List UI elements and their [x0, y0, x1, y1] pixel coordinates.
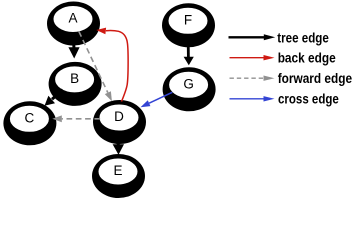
back edge D->A (red) [96, 28, 128, 102]
tree edge B->C [45, 90, 63, 106]
forward edge A->D (gray dashed) [79, 32, 112, 102]
node E [92, 154, 145, 198]
forward edge D->C (gray dashed) [52, 115, 100, 122]
svg-text:cross edge: cross edge [278, 90, 339, 106]
node A [47, 2, 100, 46]
node G [163, 67, 216, 111]
svg-text:E: E [113, 163, 122, 178]
svg-text:A: A [68, 11, 77, 26]
svg-text:forward edge: forward edge [278, 70, 353, 86]
svg-text:F: F [184, 12, 192, 27]
tree edge D->E [113, 131, 124, 155]
legend arrow: tree edge (black) [229, 34, 276, 40]
cross edge G->D (blue) [141, 92, 173, 107]
svg-text:tree edge: tree edge [277, 29, 329, 45]
tree edge F->G [184, 34, 194, 65]
legend arrow: back edge (red) [230, 55, 275, 60]
svg-text:B: B [70, 71, 79, 86]
legend arrow: forward edge (gray dashed) [230, 76, 275, 81]
svg-text:C: C [25, 110, 35, 125]
svg-text:back edge: back edge [278, 50, 336, 66]
svg-text:D: D [114, 109, 124, 124]
node F [162, 3, 215, 47]
node D [93, 100, 146, 144]
legend arrow: cross edge (blue) [230, 96, 275, 101]
tree edge A->B [68, 32, 79, 58]
node B [49, 62, 102, 106]
node C [3, 101, 56, 145]
svg-text:G: G [183, 76, 194, 91]
